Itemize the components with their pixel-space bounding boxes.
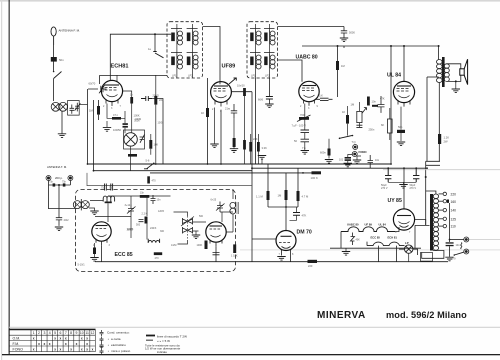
cap 101 at fono [348, 155, 353, 158]
wire x93.5 osc line [93, 100, 95, 171]
border frame: bottom black rule [2, 354, 500, 355]
svg-text:x: x [60, 336, 62, 340]
resistor 22n between stages [154, 96, 157, 105]
svg-text:100/50: 100/50 [113, 128, 121, 132]
svg-text:ANTENNA T. M.: ANTENNA T. M. [47, 165, 67, 169]
small outline box bottom [421, 253, 433, 262]
tube UABC80 envelope [299, 81, 319, 101]
svg-text:UY 85: UY 85 [388, 198, 402, 204]
svg-text:270 V: 270 V [381, 187, 388, 190]
svg-text:UABC 80: UABC 80 [347, 223, 359, 227]
heater line y261.7 [95, 261, 448, 263]
ECH81 cathode components cluster [112, 117, 121, 120]
svg-text:120/3: 120/3 [127, 228, 134, 231]
wires gang to tubes [174, 212, 188, 244]
ground below 22n [230, 149, 238, 153]
footer legend resistor line samples [145, 334, 187, 353]
svg-text:x: x [86, 336, 88, 340]
svg-text:75n: 75n [49, 181, 54, 184]
wire cap junction to upper mains terminal [450, 239, 464, 241]
IF transformer T2 dashed box [247, 22, 278, 78]
capacitor 21n [231, 104, 237, 118]
svg-text:160: 160 [451, 200, 457, 204]
resistor 2.2K [243, 140, 246, 150]
UL84 cathode resistor dark [397, 130, 405, 133]
svg-text:x: x [65, 342, 67, 346]
output transformer secondary coil [444, 64, 449, 82]
svg-text:700: 700 [300, 113, 305, 117]
svg-text:1/2M: 1/2M [171, 244, 176, 247]
wire antenna down [53, 45, 55, 71]
tube DM70 envelope [276, 231, 296, 251]
svg-text:10: 10 [80, 331, 84, 335]
band switch stem [154, 34, 156, 51]
FONO jack upper [353, 145, 358, 150]
gang link dashed [187, 216, 189, 240]
svg-text:x: x [54, 347, 56, 351]
triode2 to heater line [215, 246, 217, 262]
ganged tuning cap FM upper [181, 217, 194, 227]
svg-text:•: • [108, 343, 109, 347]
resistor 1M dropper [336, 61, 339, 70]
UY85 cathode wire to transformer [415, 220, 426, 226]
border frame: top grey rule [0, 0, 500, 2]
thermistor 40K [351, 233, 355, 246]
table x marks [33, 336, 94, 351]
svg-text:ECC 85: ECC 85 [371, 236, 381, 240]
svg-text:1K: 1K [201, 111, 204, 115]
svg-text:2W: 2W [444, 140, 448, 144]
junction dots extra [87, 163, 89, 165]
svg-text:3: 3 [43, 331, 45, 335]
svg-text:UL 84: UL 84 [379, 223, 387, 227]
tap 140 [439, 209, 444, 211]
svg-text:x: x [44, 342, 46, 346]
tube UL84 electrodes [397, 86, 412, 107]
AGC arrow at UF89 [229, 78, 236, 84]
volume potentiometer [357, 111, 362, 122]
svg-text:1M: 1M [89, 109, 94, 113]
svg-text:470: 470 [152, 180, 157, 183]
wave switch on bus [144, 164, 154, 169]
table row labels [13, 336, 24, 351]
cap 250n [356, 125, 362, 127]
svg-text:7 n: 7 n [302, 146, 306, 150]
wire T2 to UABC80 grid [278, 60, 303, 82]
grid cap 60/70 trimmer left of ECH81 [88, 85, 105, 94]
svg-text:5-6: 5-6 [146, 159, 150, 163]
trimmer cap CV1 [70, 105, 75, 114]
svg-text:300/7: 300/7 [134, 119, 141, 123]
FM grid coil [103, 196, 114, 201]
resistor 22K right [249, 142, 252, 152]
svg-text:22n: 22n [159, 98, 164, 102]
grid-circuit rail y75.4 [100, 74, 168, 76]
svg-text:3.3K: 3.3K [262, 146, 268, 150]
svg-text:47 n: 47 n [113, 113, 119, 117]
capacitor 200/5 [141, 96, 152, 101]
svg-text:10n/30: 10n/30 [237, 85, 245, 88]
wire primary bottom down [438, 83, 440, 162]
svg-text:x: x [81, 347, 83, 351]
svg-text:10n: 10n [157, 199, 162, 202]
ground speaker [455, 81, 457, 88]
ferrite antenna coil L1 [51, 102, 67, 111]
svg-text:270 V: 270 V [410, 187, 417, 190]
FM tuner dashed enclosure [76, 190, 236, 272]
svg-text:T.Q.: T.Q. [352, 141, 357, 144]
resistor below osc box [128, 154, 137, 157]
svg-text:6+25: 6+25 [211, 199, 217, 202]
tap 125 [439, 218, 444, 220]
join box above transformer [426, 161, 440, 191]
T1 coil bottom-right [187, 53, 199, 70]
grey line from mains terminal to right edge [466, 238, 500, 241]
resistor 1.2K 2W [438, 134, 441, 144]
svg-text:140: 140 [451, 209, 457, 213]
T1 internal wires [177, 24, 193, 78]
oscillator coil box [124, 130, 145, 149]
wire dropper column [337, 46, 339, 97]
triode1 cathode to heater line [101, 245, 103, 261]
svg-text:7 µF - 100 V: 7 µF - 100 V [292, 124, 307, 128]
svg-text:x: x [65, 336, 67, 340]
resistor 470 [154, 252, 162, 255]
wires from terminals [49, 181, 76, 209]
choke 50n on antenna lead [51, 57, 57, 62]
svg-text:MINERVA: MINERVA [317, 310, 366, 321]
svg-text:UF89: UF89 [222, 64, 236, 70]
svg-text:75n: 75n [62, 181, 67, 184]
svg-text:1: 1 [33, 331, 35, 335]
svg-text:x: x [86, 342, 88, 346]
DM70 side wire [252, 238, 276, 240]
svg-text:101: 101 [339, 158, 344, 161]
triode2 cathode resistor [205, 241, 208, 250]
triode2 electrodes [210, 226, 223, 246]
svg-text:•: • [108, 349, 109, 353]
ground cathode cluster [103, 128, 111, 132]
wire AVC vertical line x87.5 [87, 89, 89, 164]
svg-text:FONO: FONO [13, 347, 24, 351]
pilot lamp LP [405, 245, 413, 253]
triode2 plate wire [221, 212, 223, 222]
svg-text:x: x [76, 342, 78, 346]
tap 220 [439, 193, 444, 195]
cap 1n h [372, 105, 378, 107]
ganged tuning cap FM lower [183, 227, 193, 234]
svg-text:220: 220 [308, 264, 313, 268]
svg-text:x: x [70, 347, 72, 351]
svg-text:470: 470 [155, 257, 160, 260]
svg-text:8: 8 [70, 331, 72, 335]
svg-text:75n: 75n [109, 187, 114, 190]
svg-text:50n: 50n [59, 58, 64, 62]
tube ECC85 triode2 envelope [206, 222, 226, 242]
stub rail to tube [99, 75, 101, 84]
svg-text:125: 125 [451, 217, 457, 221]
cap 500 [139, 220, 144, 222]
heater row1 to UY85 [395, 227, 399, 232]
svg-text:LP1: LP1 [172, 74, 177, 78]
ground gang [192, 235, 200, 239]
terminal A1 [46, 176, 51, 181]
bus y172.9 [150, 172, 312, 174]
svg-text:4: 4 [49, 331, 51, 335]
tuning box around L1 trimmers [68, 101, 80, 116]
ground DM70 [277, 257, 285, 261]
border frame: grey rule above footer [9, 326, 500, 329]
svg-text:100 K: 100 K [311, 176, 318, 180]
wire transformer top to rail [426, 191, 436, 225]
svg-text:21n: 21n [225, 107, 230, 111]
svg-text:300: 300 [160, 230, 165, 233]
svg-text:x: x [60, 347, 62, 351]
svg-text:UL 84: UL 84 [387, 73, 401, 79]
tube UY85 envelope [393, 209, 414, 230]
svg-text:ECH 81: ECH 81 [388, 236, 398, 240]
svg-text:x: x [81, 336, 83, 340]
cap 100/50 [123, 123, 128, 125]
svg-text:1M: 1M [351, 103, 355, 107]
tube ECH81 electrodes [105, 85, 120, 106]
wire ferrite box to AVC line [79, 104, 87, 106]
svg-text:F.M.: F.M. [13, 342, 20, 346]
svg-text:66/6: 66/6 [258, 98, 264, 102]
cap 10n right of coil [151, 195, 156, 204]
cathode resistor cluster t1 [93, 248, 96, 255]
svg-text:240/3: 240/3 [150, 227, 157, 230]
svg-text:10n: 10n [456, 244, 461, 247]
T1 coil top-left [171, 29, 183, 46]
svg-text:75n: 75n [101, 187, 106, 190]
svg-text:600n: 600n [320, 151, 326, 155]
resistor 10n [367, 97, 370, 106]
svg-text:47K: 47K [302, 214, 307, 218]
footer switch-position table [9, 329, 95, 352]
svg-text:4.7 M: 4.7 M [302, 195, 309, 199]
resistor 10K right of osc [149, 140, 152, 149]
svg-text:7: 7 [65, 331, 67, 335]
row2 verticals [367, 242, 397, 262]
footer legend text [107, 331, 131, 353]
ground right coil [89, 208, 95, 211]
T2 internal wires [256, 24, 270, 78]
primary feed wire [415, 225, 430, 248]
svg-text:x: x [92, 347, 94, 351]
wire x252 long vertical [251, 92, 253, 262]
wire grid coil to triode1 [107, 203, 109, 222]
resistor 15n top of box [140, 195, 150, 198]
B+ rail y46 [302, 45, 439, 47]
caps 75n 75n at box top [105, 184, 113, 191]
svg-text:6K: 6K [381, 123, 384, 127]
FM plate coil [230, 202, 238, 214]
svg-text:x: x [54, 336, 56, 340]
tube UABC80 electrodes [302, 86, 316, 106]
svg-text:10/5: 10/5 [158, 122, 163, 125]
svg-text:10n: 10n [372, 100, 377, 104]
svg-text:linee di raccordo T 2W: linee di raccordo T 2W [157, 334, 187, 338]
IF transformer T1 dashed box [167, 22, 203, 78]
svg-text:25.K: 25.K [318, 94, 324, 98]
svg-text:50n: 50n [398, 125, 403, 129]
T2 coil bottom-right [264, 53, 275, 70]
svg-text:110: 110 [451, 225, 456, 229]
svg-text:1 10K: 1 10K [231, 255, 238, 258]
UY85 plate wire to B+ [403, 168, 405, 209]
svg-text:5000: 5000 [349, 31, 355, 35]
svg-text:60/70: 60/70 [89, 82, 96, 86]
primary bottom wiring [422, 251, 444, 259]
junction dot band-switch [154, 33, 156, 35]
wire UF89 cathode down [214, 108, 216, 144]
FONO jack lower [352, 152, 357, 157]
wires middle of FM box [131, 196, 147, 240]
svg-text:elettrolitico: elettrolitico [111, 343, 126, 347]
svg-text:x: x [33, 336, 35, 340]
mains terminal upper [464, 237, 469, 242]
DM70 electrodes [279, 236, 292, 248]
UL84 plate wire to rail [403, 46, 405, 81]
wire T1 to UF89 grid [203, 27, 221, 85]
svg-text:250n: 250n [369, 128, 375, 132]
svg-text:500: 500 [136, 224, 141, 227]
wire T2 top to decoupling [278, 26, 345, 28]
output transformer core [442, 57, 445, 87]
cap cluster triode2 [213, 253, 220, 255]
border frame: left grey rule [1, 0, 2, 360]
T2 coil top-left [250, 29, 261, 46]
feedback wire x427 [426, 77, 428, 161]
svg-text:O.M.: O.M. [13, 336, 21, 340]
svg-text:1M: 1M [341, 64, 345, 68]
FM trimmer second stage [216, 202, 225, 213]
coupling cap 25K [316, 98, 333, 100]
svg-text:indicate: indicate [157, 350, 167, 354]
transformer core [430, 194, 433, 251]
lamp wires [399, 249, 418, 255]
UY85 electrodes [397, 216, 411, 228]
wires resistor columns [268, 164, 298, 230]
loudspeaker [460, 59, 468, 84]
svg-text:220: 220 [451, 193, 457, 197]
svg-text:100K: 100K [197, 244, 203, 247]
svg-text:x: x [33, 347, 35, 351]
svg-text:10n: 10n [375, 159, 380, 162]
voltage selector wire [449, 203, 451, 242]
svg-text:UF 89: UF 89 [365, 223, 373, 227]
ground on B+ area [353, 160, 361, 164]
svg-text:x: x [86, 347, 88, 351]
AF rail above FM box [87, 173, 252, 186]
UABC80 lower components cluster [299, 117, 309, 120]
svg-text:6: 6 [59, 331, 61, 335]
wire UF89 screen column [207, 78, 209, 164]
capacitor 47K [293, 213, 300, 216]
B+ bus y168.2 [252, 167, 426, 169]
selector switch [340, 136, 353, 139]
svg-text:1K: 1K [342, 110, 345, 114]
mains terminal lower [464, 249, 469, 254]
heater return line y248.2 [330, 247, 421, 249]
wire plate to primary [438, 46, 440, 60]
FM osc coil bottom [148, 239, 159, 243]
ground between caps [399, 185, 407, 189]
resistor 100K on bus [312, 171, 322, 174]
triode1 electrodes [96, 226, 108, 246]
wire joining columns [268, 206, 298, 208]
resistor on x98.5 stub [97, 106, 100, 115]
wire cap to ground [449, 246, 451, 257]
oscillator coil L2 [124, 133, 137, 146]
svg-text:•: • [108, 337, 109, 341]
svg-text:a carta: a carta [111, 337, 121, 341]
wire 200/5 to bus [162, 101, 164, 164]
wire transformer to coil [90, 201, 103, 202]
DM70 pins [282, 250, 291, 262]
T1 coil bottom-left [171, 53, 183, 70]
svg-text:LP: LP [405, 241, 409, 245]
ground fm input [55, 227, 63, 231]
ground below 5000 [340, 38, 348, 42]
svg-text:5-10/1: 5-10/1 [78, 264, 86, 267]
T2 coil top-right [264, 29, 275, 46]
svg-text:9: 9 [76, 331, 78, 335]
tube UF89 envelope [211, 82, 232, 103]
tap 160 [439, 200, 444, 202]
transformer winding [433, 194, 438, 250]
FM input transformer [73, 199, 89, 210]
tap 110 [439, 225, 444, 227]
tube ECH81 envelope [101, 80, 122, 101]
svg-text:x: x [38, 342, 40, 346]
svg-text:x: x [49, 342, 51, 346]
junction dots on buses [155, 163, 157, 165]
plate feed wire ECH81 top [110, 34, 171, 80]
border frame: left black rule [9, 0, 10, 355]
tube ECC85 triode1 envelope [92, 222, 111, 241]
resistor 1n right of ECH81 [130, 97, 133, 104]
heater left drop [340, 232, 342, 249]
resistor 4.7M [297, 191, 300, 201]
svg-text:3+12: 3+12 [125, 204, 131, 207]
ground UF89 cathode [210, 144, 218, 148]
svg-text:15n: 15n [140, 192, 145, 195]
resistor 10n/30 vertical on plate wire [243, 88, 246, 96]
mains capacitor [446, 242, 454, 243]
svg-text:mod. 596/2 Milano: mod. 596/2 Milano [386, 310, 467, 320]
wire UF89 pin3 to bus [220, 110, 222, 164]
footer legend capacitor symbols [100, 330, 104, 355]
switch S1 antenna [54, 72, 62, 79]
electrolytic 50uF a [385, 168, 391, 182]
bus y170.7 [94, 170, 253, 172]
paper crease grey line mid right [240, 249, 500, 252]
UL84 tone pot [388, 119, 393, 133]
wire x344 cap to rail [343, 46, 345, 48]
resistor 1M [285, 190, 288, 200]
variable cap CV2 with arrow [75, 103, 81, 112]
resistor 1K right of UABC [346, 115, 349, 124]
svg-text:ECC 85: ECC 85 [115, 252, 133, 258]
svg-text:12: 12 [91, 331, 95, 335]
svg-text:mica o poliest.: mica o poliest. [111, 349, 131, 353]
output transformer primary coil [437, 60, 443, 83]
ground stub near bus x262 [261, 159, 263, 164]
ground mains [445, 257, 453, 261]
speaker wiring [447, 64, 461, 82]
